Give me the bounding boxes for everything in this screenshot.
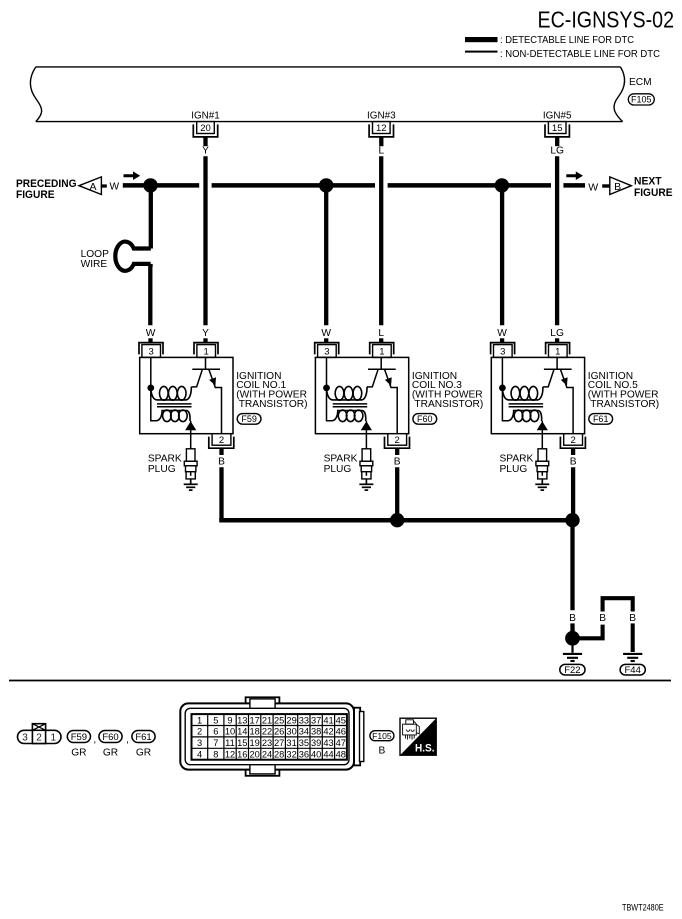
svg-text:W: W — [110, 181, 120, 192]
wire: W from loop wire down to coil1 pin 3 — [149, 264, 153, 267]
svg-text:2: 2 — [219, 435, 224, 446]
wire: Y label to coil1 pin 1 bracket — [203, 338, 207, 342]
coil1 transformer core — [157, 403, 192, 405]
svg-text:F105: F105 — [372, 731, 392, 741]
svg-text:8: 8 — [213, 750, 218, 760]
ground connector label F44 — [620, 664, 645, 676]
svg-text:SPARK: SPARK — [500, 454, 534, 465]
svg-text:3: 3 — [149, 347, 154, 358]
spark plug 1 body — [186, 449, 195, 461]
svg-text:B: B — [394, 456, 401, 467]
coil1 pin 1 bracket — [194, 343, 218, 355]
svg-text:1: 1 — [51, 733, 57, 744]
svg-text:7: 7 — [213, 738, 218, 748]
coil1 internal wire from pin 3 — [151, 357, 157, 420]
svg-text:TRANSISTOR): TRANSISTOR) — [414, 399, 483, 410]
wire: LG from ECM terminal down to coil3 pin 1 — [555, 156, 559, 325]
spark plug 2 body — [362, 449, 371, 461]
wire: B label to ground junction — [570, 623, 574, 632]
coil3 transformer secondary winding — [508, 410, 541, 422]
svg-text:4: 4 — [197, 750, 202, 760]
svg-text:B: B — [569, 613, 576, 624]
svg-text:17: 17 — [250, 715, 260, 725]
ignition coil F59 component box — [140, 357, 233, 433]
svg-text:27: 27 — [274, 738, 284, 748]
wire stub below terminal 15 — [555, 137, 559, 146]
svg-text:1: 1 — [197, 715, 202, 725]
svg-text:10: 10 — [225, 727, 235, 737]
svg-text:IGN#1: IGN#1 — [191, 111, 220, 122]
svg-text:WIRE: WIRE — [81, 259, 108, 270]
wire: jumper right leg to ground F44 — [631, 623, 635, 652]
connector label F61 (view) — [132, 731, 155, 744]
ECM connector pin numbers — [197, 715, 346, 759]
ignition coil NO.3 label — [412, 371, 483, 410]
svg-text:F105: F105 — [631, 95, 652, 105]
svg-text:F61: F61 — [593, 414, 609, 424]
svg-text:11: 11 — [225, 738, 235, 748]
svg-text:Y: Y — [202, 145, 209, 156]
wire: W from bus junction down to coil3 pin 3 — [500, 185, 504, 325]
spark plug 1 center electrode — [190, 472, 192, 476]
wire: B ground bus — [222, 518, 573, 520]
wire: B from coil3 pin 2 to ground bus — [571, 467, 575, 520]
coil2 transformer core — [333, 403, 368, 405]
coil2 transformer primary winding — [327, 386, 368, 400]
svg-text:NEXT: NEXT — [634, 176, 662, 188]
off-page connector triangle A — [79, 177, 101, 195]
ECM terminal 12 (IGN#3) bracket — [369, 124, 393, 136]
off-page connector triangle B — [610, 177, 632, 195]
svg-text:W: W — [497, 328, 507, 339]
ECM connector label F105 — [628, 94, 654, 105]
ECM box U1 (wavy-edged block) — [30, 67, 624, 122]
svg-text:SPARK: SPARK — [324, 454, 358, 465]
svg-text:1: 1 — [555, 347, 560, 358]
ECM terminal 12 box — [373, 122, 391, 135]
wire: W bus IGN#1 crossover to IGN#3 crossover — [212, 183, 375, 188]
svg-text:24: 24 — [262, 750, 272, 760]
svg-text:LG: LG — [550, 145, 564, 156]
svg-text:3: 3 — [324, 347, 329, 358]
coil3 transistor collector lead to primary — [543, 369, 554, 387]
svg-text:32: 32 — [286, 750, 296, 760]
wire stub below coil2 pin 2 — [395, 448, 399, 455]
svg-text:14: 14 — [237, 727, 247, 737]
coil3 terminal box pin 1 — [549, 345, 568, 358]
svg-text:,: , — [126, 735, 129, 746]
spark plug 3 shell / gap electrode — [538, 472, 547, 479]
coil1 power transistor Q1 base wire from pin 1 — [205, 357, 207, 369]
svg-text:44: 44 — [323, 750, 333, 760]
ground connector label F22 — [560, 664, 585, 676]
separator rule above connector-view strip — [9, 680, 671, 682]
svg-text:16: 16 — [237, 750, 247, 760]
svg-text:F59: F59 — [71, 732, 87, 743]
ECM terminal 20 (IGN#1) bracket — [193, 124, 217, 136]
svg-text:43: 43 — [323, 738, 333, 748]
svg-text:2: 2 — [36, 733, 42, 744]
coil2 pin 1 bracket — [370, 343, 394, 355]
svg-text:9: 9 — [227, 715, 232, 725]
svg-text:PLUG: PLUG — [324, 464, 352, 475]
svg-text:28: 28 — [274, 750, 284, 760]
svg-text:TRANSISTOR): TRANSISTOR) — [239, 399, 308, 410]
svg-text:PLUG: PLUG — [500, 464, 528, 475]
coil1 transformer primary winding — [151, 386, 192, 400]
coil3 transistor emitter lead with arrow — [560, 369, 573, 433]
coil3 pin 2 bracket — [560, 437, 585, 449]
coil1 secondary output wire — [190, 421, 192, 434]
coil1 terminal box pin 2 — [212, 434, 231, 446]
svg-text:GR: GR — [103, 748, 118, 759]
svg-text:F59: F59 — [241, 414, 257, 424]
svg-text:31: 31 — [286, 738, 296, 748]
coil1 power transistor Q1 base bar — [192, 368, 220, 370]
coil3 diode (secondary arrow) — [537, 421, 548, 430]
spark plug 1 ground — [184, 479, 198, 490]
H.S. (harness side) mark — [400, 718, 436, 755]
svg-text:B: B — [379, 746, 386, 757]
svg-text:33: 33 — [299, 715, 309, 725]
coil3 emitter arrowhead — [561, 377, 568, 385]
svg-text:12: 12 — [376, 123, 387, 134]
svg-text:EC-IGNSYS-02: EC-IGNSYS-02 — [538, 7, 675, 33]
svg-text:46: 46 — [336, 727, 346, 737]
svg-text:3: 3 — [500, 347, 505, 358]
wire stub below coil1 pin 2 — [219, 448, 223, 455]
svg-text:47: 47 — [336, 738, 346, 748]
connector cavity numbers 3 2 1 — [22, 733, 56, 744]
svg-text:22: 22 — [262, 727, 272, 737]
svg-text:19: 19 — [250, 738, 260, 748]
svg-text:GR: GR — [136, 748, 151, 759]
flow arrow on W bus (left) — [124, 171, 141, 180]
ground symbol F22 — [563, 654, 582, 661]
coil2 power transistor Q2 base wire from pin 1 — [380, 357, 382, 369]
coil1 pin 3 bracket — [139, 343, 163, 355]
spark plug 2 center electrode — [365, 472, 367, 476]
flow arrow on W bus (right) — [566, 171, 583, 180]
spark plug 3 lead — [541, 434, 543, 449]
coil1 pin 2 bracket — [209, 437, 234, 449]
coil3 pin 3 bracket — [491, 343, 515, 355]
ignition coil NO.1 label — [236, 371, 307, 410]
svg-text:20: 20 — [250, 750, 260, 760]
coil3 power transistor Q3 base bar — [544, 368, 572, 370]
svg-text:6: 6 — [213, 727, 218, 737]
coil1 transistor emitter lead with arrow — [209, 369, 222, 433]
spark plug 3 center electrode — [541, 472, 543, 476]
coil2 emitter arrowhead — [385, 377, 392, 385]
coil2 pin 3 bracket — [315, 343, 339, 355]
coil2 internal junction dot — [323, 385, 330, 392]
coil3 internal wire from pin 3 — [502, 357, 508, 420]
coil3 secondary output wire — [541, 421, 543, 434]
coil1 internal junction dot — [147, 385, 154, 392]
coil connector face view (3-2-1) — [18, 724, 62, 744]
coil2 terminal box pin 1 — [373, 345, 392, 358]
spark plug 2 ground — [359, 479, 373, 490]
wire: W bus IGN#3 crossover to IGN#5 crossover — [388, 183, 551, 188]
svg-text:36: 36 — [299, 750, 309, 760]
svg-text:GR: GR — [71, 748, 86, 759]
ECM terminal 15 (IGN#5) bracket — [545, 124, 569, 136]
coil1 connector label F59 — [237, 414, 261, 425]
svg-text:30: 30 — [286, 727, 296, 737]
svg-text:Y: Y — [202, 328, 209, 339]
svg-text:,: , — [93, 735, 96, 746]
svg-text:: NON-DETECTABLE LINE FOR DTC: : NON-DETECTABLE LINE FOR DTC — [500, 49, 660, 60]
ECM terminal 20 box — [197, 122, 215, 135]
svg-text:TRANSISTOR): TRANSISTOR) — [590, 399, 659, 410]
svg-text:3: 3 — [22, 733, 28, 744]
ECM terminal 15 box — [548, 122, 566, 135]
coil2 transformer secondary winding — [332, 410, 365, 422]
junction dot ground bus / coil3 — [565, 513, 579, 527]
coil3 terminal box pin 2 — [564, 434, 583, 446]
svg-text:IGN#3: IGN#3 — [367, 111, 396, 122]
svg-text:34: 34 — [299, 727, 309, 737]
svg-text:37: 37 — [311, 715, 321, 725]
junction dot at ground F22 — [565, 631, 580, 646]
wire: junction to ground symbol F22 — [571, 638, 573, 653]
svg-text:40: 40 — [311, 750, 321, 760]
wire: W bus junction1 to IGN#1 crossover — [151, 183, 200, 188]
wire: W from junction1 down to loop wire — [149, 185, 153, 248]
ECM connector label F105 (view) — [370, 731, 394, 741]
svg-text:L: L — [378, 328, 384, 339]
wire stub below terminal 20 — [203, 137, 207, 146]
wire: B from ground bus down — [570, 520, 574, 610]
ignition coil NO.5 label — [588, 371, 659, 410]
coil2 terminal box pin 2 — [388, 434, 407, 446]
ECM connector face view outline — [180, 697, 363, 776]
svg-text:48: 48 — [336, 750, 346, 760]
spark plug 2 lead — [365, 434, 367, 449]
svg-text:2: 2 — [570, 435, 575, 446]
svg-text:F22: F22 — [564, 665, 580, 676]
coil2 transistor emitter lead with arrow — [385, 369, 398, 433]
svg-text:45: 45 — [336, 715, 346, 725]
wire: jumper left leg upper + top bar + right leg upper — [603, 598, 633, 611]
svg-text:2: 2 — [395, 435, 400, 446]
spark plug 2 shell / gap electrode — [362, 472, 371, 479]
svg-text:15: 15 — [552, 123, 563, 134]
coil3 transformer primary winding — [502, 386, 543, 400]
legend: non-detectable line for DTC — [465, 49, 660, 60]
spark plug 3 ground — [535, 479, 549, 490]
svg-text:ECM: ECM — [629, 77, 652, 88]
wire: W from bus junction down to coil2 pin 3 — [324, 185, 328, 325]
svg-text:F44: F44 — [625, 665, 641, 676]
svg-text:1: 1 — [204, 347, 209, 358]
svg-text:12: 12 — [225, 750, 235, 760]
svg-text:SPARK: SPARK — [148, 454, 182, 465]
coil3 connector label F61 — [589, 414, 613, 425]
wire: W label to coil1 pin 3 bracket — [148, 338, 152, 342]
connector label F60 (view) — [99, 731, 122, 744]
ECM connector pin grid — [192, 714, 347, 760]
svg-text:FIGURE: FIGURE — [16, 189, 55, 201]
wire: LG label to coil3 pin 1 bracket — [555, 338, 559, 342]
svg-text:23: 23 — [262, 738, 272, 748]
svg-text:W: W — [321, 328, 331, 339]
wire: B from coil2 pin 2 to ground bus — [395, 467, 399, 520]
spark plug 3 body — [538, 449, 547, 461]
svg-text:3: 3 — [197, 738, 202, 748]
connector label F59 (view) — [67, 731, 90, 744]
coil2 power transistor Q2 base bar — [368, 368, 396, 370]
svg-text:35: 35 — [299, 738, 309, 748]
svg-text:W: W — [588, 181, 598, 193]
spark plug 1 shell / gap electrode — [186, 472, 195, 479]
svg-text:W: W — [146, 328, 156, 339]
wire stub below terminal 12 — [379, 137, 383, 146]
svg-text:TBWT2480E: TBWT2480E — [622, 903, 664, 913]
wire stub below coil3 pin 2 — [571, 448, 575, 455]
wire: main W bus segment from preceding-figure to junction — [123, 183, 151, 188]
svg-text:29: 29 — [286, 715, 296, 725]
svg-text:42: 42 — [323, 727, 333, 737]
svg-text:18: 18 — [250, 727, 260, 737]
svg-text:F60: F60 — [102, 732, 118, 743]
junction dot bus/coil3 — [495, 178, 509, 192]
coil3 transformer core — [509, 403, 543, 405]
wire: W bus after IGN#5 crossover to next-figure — [563, 183, 585, 188]
spark plug 1 lead — [190, 434, 192, 449]
coil2 diode (secondary arrow) — [361, 421, 372, 430]
wire: L from ECM terminal down to coil2 pin 1 — [379, 156, 383, 325]
ground symbol F44 — [623, 654, 642, 661]
wire: W label to coil2 pin 3 bracket — [324, 338, 328, 342]
svg-text:F60: F60 — [417, 414, 433, 424]
coil1 emitter arrowhead — [209, 377, 216, 385]
svg-text:1: 1 — [379, 347, 384, 358]
junction dot bus/coil1 — [143, 178, 157, 192]
coil1 terminal box pin 1 — [197, 345, 216, 358]
svg-text:13: 13 — [237, 715, 247, 725]
coil2 connector label F60 — [413, 414, 437, 425]
svg-text:B: B — [570, 456, 577, 467]
legend: detectable line for DTC — [465, 35, 634, 46]
coil3 internal junction dot — [499, 385, 506, 392]
svg-text:: DETECTABLE LINE FOR DTC: : DETECTABLE LINE FOR DTC — [500, 35, 634, 46]
wire: B from coil1 pin 2 to ground bus — [219, 467, 223, 520]
coil1 transformer secondary winding — [157, 410, 190, 422]
coil1 terminal box pin 3 — [142, 345, 161, 358]
svg-text:F61: F61 — [135, 732, 151, 743]
svg-text:B: B — [218, 456, 225, 467]
svg-text:B: B — [629, 613, 636, 624]
junction dot ground bus / coil2 — [390, 513, 404, 527]
loop wire symbol — [115, 242, 150, 271]
svg-text:20: 20 — [200, 123, 211, 134]
wire: W continues to coil1 pin 3 — [148, 266, 152, 325]
svg-text:LG: LG — [550, 328, 564, 339]
svg-text:PRECEDING: PRECEDING — [16, 178, 77, 190]
junction dot bus/coil2 — [319, 178, 333, 192]
coil3 power transistor Q3 base wire from pin 1 — [556, 357, 558, 369]
svg-text:B: B — [614, 181, 621, 193]
wire: W label to coil3 pin 3 bracket — [500, 338, 504, 342]
coil2 secondary output wire — [365, 421, 367, 434]
coil2 internal wire from pin 3 — [327, 357, 333, 420]
svg-text:H.S.: H.S. — [415, 742, 435, 754]
svg-text:L: L — [378, 145, 384, 156]
svg-text:25: 25 — [274, 715, 284, 725]
coil1 transistor collector lead to primary — [191, 369, 202, 387]
svg-text:26: 26 — [274, 727, 284, 737]
coil3 terminal box pin 3 — [494, 345, 513, 358]
wire stub to triangle B — [602, 184, 610, 187]
wire stub from triangle A — [101, 184, 107, 187]
wire: Y from ECM terminal down to coil1 pin 1 — [203, 156, 207, 325]
wire: B jumper from junction toward F44 (horizontal) — [573, 625, 603, 639]
svg-text:FIGURE: FIGURE — [634, 187, 673, 199]
ignition coil F60 component box — [315, 357, 408, 433]
svg-text:PLUG: PLUG — [148, 464, 176, 475]
svg-text:B: B — [599, 613, 606, 624]
svg-text:IGN#5: IGN#5 — [543, 111, 572, 122]
svg-text:A: A — [89, 181, 96, 193]
svg-text:5: 5 — [213, 715, 218, 725]
connector icon inside H.S. mark — [403, 720, 420, 740]
coil2 terminal box pin 3 — [318, 345, 337, 358]
ignition coil F61 component box — [491, 357, 584, 433]
coil3 pin 1 bracket — [546, 343, 570, 355]
coil1 diode (secondary arrow) — [185, 421, 196, 430]
svg-text:2: 2 — [197, 727, 202, 737]
svg-text:41: 41 — [323, 715, 333, 725]
svg-text:39: 39 — [311, 738, 321, 748]
wire: L label to coil2 pin 1 bracket — [379, 338, 383, 342]
svg-text:15: 15 — [237, 738, 247, 748]
coil2 transistor collector lead to primary — [367, 369, 378, 387]
svg-text:38: 38 — [311, 727, 321, 737]
svg-text:21: 21 — [262, 715, 272, 725]
coil2 pin 2 bracket — [385, 437, 410, 449]
